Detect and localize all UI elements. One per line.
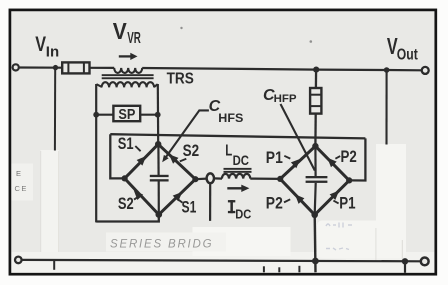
svg-text:DC: DC [235,207,251,221]
S-bridge diamond edges [125,144,196,214]
transformer TRS primary winding [114,68,142,73]
node: P-bridge left vertex [277,176,283,182]
svg-text:V: V [113,18,128,44]
wire: L_DC to P-bridge left vertex [250,178,280,180]
wire: output branch down (whited-out below y=144) [385,70,387,145]
svg-text:DC: DC [233,152,249,168]
diode P2 arrow (top-right edge) [327,158,337,168]
svg-text:HFP: HFP [274,93,297,105]
svg-text:P2: P2 [341,148,357,166]
diode P2 arrow (bottom-left edge) [295,194,305,204]
inductor L_DC core [224,168,252,173]
diode S2 arrow (top-right edge) [169,154,179,163]
label C_HFP with pointer [263,87,315,171]
label C_HFS with pointer [162,98,243,162]
diode P1 arrow (bottom-right edge) [330,191,340,201]
label S1 top-left with tick [118,135,141,153]
svg-text:SP: SP [118,106,135,123]
bottom rail terminal (left) [15,257,22,264]
svg-text:Out: Out [397,46,419,63]
node: S-bridge right vertex [192,176,198,182]
wire: junction to resistor R2 [315,70,318,88]
label P2 top-right with tick [335,148,356,166]
svg-text:S2: S2 [118,195,134,213]
svg-text:CE: CE [15,184,28,193]
svg-text:S1: S1 [182,199,197,217]
wire: outer box left edge down to S-bridge left vertex [110,134,124,178]
diode S1 arrow (top-left edge) [137,156,147,166]
wire: V_In junction down (whited-out below y=150) [54,68,56,151]
inductor L_DC winding [222,174,250,179]
svg-text:In: In [46,44,59,61]
tick below rail at x299 [298,266,300,273]
white-out rectangle left edge with faint stamp remnant [10,164,33,201]
wire: outer box right edge down to P-bridge right vertex [349,138,365,180]
diode S2 arrow (bottom-left edge) [134,190,143,200]
label V_Out [387,33,418,63]
svg-text:TRS: TRS [167,70,194,87]
white-out strip along bottom [11,252,434,273]
wire: top rail (input side through to V_Out) [142,68,422,70]
white-out stamp "SERIES BRIDGE" [106,233,226,252]
svg-text:P1: P1 [266,149,283,167]
label P1 bottom-right with tick [333,195,355,213]
bottom rail terminal (right) [421,258,429,266]
wire: P-bridge bottom vertex down to bottom rail and border [314,215,317,272]
wire: mid node to L_DC [214,177,222,179]
wire: stub down from mid node (whited-out below) [209,183,211,221]
node: S-bridge left vertex [122,175,128,181]
svg-text:P1: P1 [339,195,355,213]
P-bridge diamond edges [280,146,349,215]
component SP (box) [113,106,140,123]
white-out tape bottom right with faint handwriting [317,144,406,261]
wire: resistor to transformer primary [90,67,115,69]
wire: SP left lead [96,114,113,116]
node: open circle mid terminal [207,173,214,183]
wire: input terminal to resistor [19,66,62,68]
resistor R2 (vertical box) [310,88,321,114]
node: P-bridge top vertex [312,143,318,149]
diode P1 arrow (top-left edge) [291,159,301,168]
svg-text:P2: P2 [266,195,283,213]
svg-text:S1: S1 [118,135,134,153]
node: top rail junction at output branch [384,67,390,73]
input terminal (left, top) [13,64,19,70]
svg-text:V: V [35,33,46,56]
tick below rail at x54 [53,260,55,270]
tick below rail at x264 [263,266,265,272]
label S2 bottom-left with tick [118,195,139,213]
node: SP right junction [155,112,161,118]
wire: secondary left end down to SP level and on to bottom loop [95,84,97,222]
wire: S-bridge bottom vertex loop back to transformer left [96,215,159,222]
svg-text:L: L [225,143,232,160]
transformer TRS core [102,74,154,79]
label I_DC [228,200,251,221]
node: V_In junction [53,65,58,70]
node: S-bridge top vertex [155,141,161,147]
wire: bottom rail [22,260,421,261]
output terminal (right, top) [422,67,429,74]
label P2 bottom-left with tick [266,195,290,213]
wire: outer box top edge [110,134,365,138]
wire: secondary right end down to S-bridge top vertex [157,84,160,144]
capacitor C_HFP (inside P-bridge) [306,146,328,215]
diode S1 arrow (bottom-right edge) [173,192,183,202]
node: top rail junction above resistor R2 [313,67,319,73]
label S2 top-right with tick [180,142,199,161]
svg-text:S2: S2 [183,142,200,160]
arrow I_DC (pointing right) [227,185,249,192]
svg-text:VR: VR [127,30,141,47]
svg-text:SERIES BRIDG: SERIES BRIDG [110,239,213,251]
node: bottom rail junction right [402,258,408,264]
node: P-bridge right vertex [346,177,352,183]
wire: stub from right junction down to border [404,261,406,273]
capacitor C_HFS (inside S-bridge) [150,144,169,214]
node: S-bridge bottom vertex [156,211,163,218]
label V_VR [113,18,141,47]
tick below rail at x279 [278,267,280,272]
node: P-bridge bottom vertex [311,212,318,219]
label L_DC [225,143,249,169]
white-out band bottom middle [193,227,291,256]
speck dots [180,27,182,29]
label V_In [35,33,59,61]
arrow V_VR (pointing right) [119,53,138,60]
white-out tape strip over V_In down-wire [41,150,59,261]
svg-text:HFS: HFS [218,111,243,125]
wire: S-bridge right vertex to mid node [195,178,206,181]
svg-text:E: E [16,169,21,178]
label S1 bottom-right with tick [178,199,197,217]
transformer TRS secondary winding [96,82,157,87]
wire: resistor R2 to P-bridge top vertex [314,114,317,147]
resistor R1 (input series box) [62,62,89,73]
label P1 top-left with tick [266,149,291,167]
node: SP left junction [93,112,99,118]
wire: SP right lead [140,114,158,116]
node: bottom rail junction at P-bridge [312,258,319,265]
